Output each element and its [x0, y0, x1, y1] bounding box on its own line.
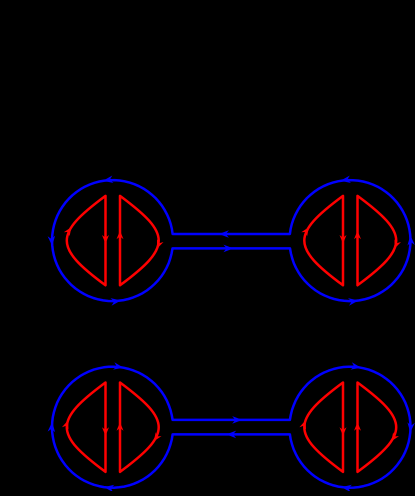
arrow red left arc up top-left — [64, 227, 72, 236]
arrow red left arc up bottom-left — [62, 420, 69, 429]
arrow top-right circle right side (up) — [407, 235, 415, 245]
arrow bottom connector lower line (left) — [226, 431, 236, 439]
arrow red right chord up top-left — [117, 231, 124, 240]
wire bottom dumbbell blue outline — [52, 367, 411, 488]
arrow top-left circle top (left) — [103, 176, 114, 184]
arrow red right arc down bottom-right — [391, 432, 399, 441]
arrow bottom-left circle bottom (left) — [104, 485, 114, 493]
arrow bottom-left circle left side (up) — [48, 422, 56, 432]
wire top dumbbell blue outline — [52, 180, 411, 301]
arrow red left chord down top-left — [102, 235, 109, 244]
red right loop bottom-right — [358, 383, 397, 472]
arrow top-left circle bottom (right) — [111, 298, 121, 306]
arrow red right arc down top-right — [395, 239, 402, 248]
arrow bottom-right circle top (right) — [351, 362, 362, 369]
arrow red right arc down bottom-left — [154, 432, 162, 441]
arrow top connector upper line (left) — [219, 230, 229, 238]
red right loop top-left — [120, 196, 159, 285]
arrow red right chord up bottom-left — [117, 422, 124, 431]
arrow bottom-right circle right side (down) — [407, 422, 415, 432]
arrow top-right circle top (left) — [341, 176, 352, 184]
arrow bottom connector upper line (right) — [232, 416, 242, 424]
arrow red left chord down bottom-left — [102, 427, 109, 436]
arrow red left arc up bottom-right — [299, 420, 306, 429]
arrow red left chord down top-right — [340, 235, 347, 244]
arrow top connector lower line (right) — [223, 245, 233, 253]
arrow red left arc up top-right — [301, 227, 309, 236]
arrow red right chord up top-right — [354, 231, 361, 240]
arrow top-right circle bottom (right) — [348, 298, 358, 306]
arrow bottom-right circle bottom (left) — [342, 485, 352, 493]
arrow top-left circle left side (down) — [48, 236, 56, 246]
red right loop bottom-left — [120, 383, 159, 472]
red left loop bottom-right — [304, 383, 343, 472]
red right loop top-right — [358, 196, 397, 285]
arrow red right arc down top-left — [157, 239, 164, 248]
red left loop bottom-left — [67, 383, 106, 472]
arrow red left chord down bottom-right — [340, 427, 347, 436]
arrow bottom-left circle top (right) — [113, 362, 124, 369]
red left loop top-left — [67, 196, 106, 285]
arrow red right chord up bottom-right — [354, 422, 361, 431]
red left loop top-right — [304, 196, 343, 285]
